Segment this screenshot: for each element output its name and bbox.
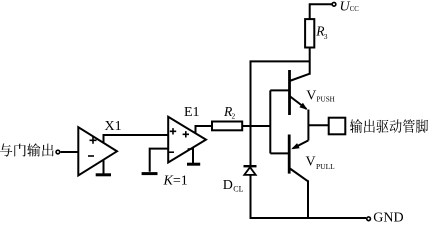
svg-text:V: V bbox=[306, 89, 316, 104]
X1 minus sign bbox=[88, 155, 94, 157]
X1 ground stem bbox=[103, 160, 105, 174]
transistor V_PULL base lead bbox=[270, 152, 289, 154]
svg-text:X1: X1 bbox=[105, 119, 122, 134]
wire collector to R3 bbox=[309, 48, 311, 75]
X1 plus sign bbox=[90, 137, 97, 144]
svg-text:CL: CL bbox=[233, 185, 243, 194]
E1 minus sign (input) bbox=[169, 151, 174, 153]
svg-text:2: 2 bbox=[232, 112, 236, 121]
wire X1 output to E1 bbox=[103, 134, 169, 136]
node: GND terminal bbox=[367, 217, 371, 221]
transistor V_PUSH emitter bbox=[290, 96, 307, 109]
wire E1 to R2 bbox=[195, 125, 213, 127]
base connection line bbox=[269, 90, 271, 153]
op-amp X1 buffer triangle bbox=[78, 127, 117, 175]
E1 input ground bar bbox=[142, 172, 158, 175]
E1 inverting input lead bbox=[150, 149, 169, 172]
diode D_CL triangle bbox=[244, 167, 255, 175]
transistor V_PUSH base lead bbox=[270, 89, 289, 91]
output pin box bbox=[329, 118, 346, 135]
node: Ucc terminal bbox=[332, 2, 336, 6]
svg-text:PUSH: PUSH bbox=[317, 96, 335, 104]
label: output drive pin (CJK) bbox=[350, 119, 428, 133]
svg-text:CC: CC bbox=[350, 6, 360, 13]
ground rail bbox=[250, 217, 367, 219]
svg-text:3: 3 bbox=[324, 32, 328, 41]
diode D_CL cathode bar bbox=[244, 165, 257, 167]
wire output node to pin box bbox=[308, 124, 328, 126]
E1 ground stem bbox=[192, 148, 194, 163]
op-amp E1 controlled source triangle bbox=[168, 117, 206, 163]
V_PULL emitter arrowhead bbox=[291, 143, 299, 149]
node: AND-gate output input terminal bbox=[56, 150, 60, 154]
label: AND gate output (CJK) bbox=[0, 143, 54, 156]
output node vertical wire bbox=[307, 110, 309, 141]
transistor V_PULL collector bbox=[289, 168, 308, 181]
wire collector to ground rail bbox=[307, 180, 309, 218]
svg-text:V: V bbox=[306, 155, 316, 170]
wire R3 to Ucc bbox=[310, 4, 332, 19]
E1 plus sign (inner) bbox=[183, 131, 189, 137]
X1 ground bar bbox=[96, 173, 111, 176]
svg-text:PULL: PULL bbox=[316, 162, 335, 171]
svg-text:GND: GND bbox=[373, 210, 403, 222]
transistor V_PUSH base bar bbox=[288, 70, 291, 115]
transistor V_PULL emitter bbox=[293, 140, 308, 148]
svg-text:D: D bbox=[223, 178, 233, 193]
resistor R3 bbox=[305, 19, 314, 47]
svg-text:E1: E1 bbox=[184, 105, 200, 120]
transistor V_PULL base bar bbox=[288, 135, 291, 174]
svg-text:K=1: K=1 bbox=[163, 173, 188, 188]
wire R2 to base line bbox=[242, 125, 270, 127]
X1 output stub bbox=[103, 135, 105, 143]
transistor V_PUSH collector bbox=[290, 74, 310, 81]
E1 ground bar bbox=[187, 163, 200, 166]
E1 plus sign (input) bbox=[170, 128, 176, 134]
wire input terminal to X1 bbox=[61, 151, 79, 153]
V_PUSH emitter arrowhead bbox=[299, 103, 307, 110]
E1 output stub bbox=[195, 126, 197, 134]
resistor R2 bbox=[212, 122, 242, 131]
wire top branch to clamp line bbox=[251, 61, 310, 218]
E1 minus sign (inner) bbox=[188, 148, 194, 150]
